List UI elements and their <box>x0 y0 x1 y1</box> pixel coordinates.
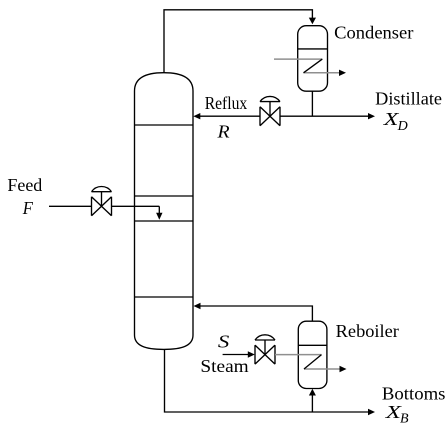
svg-text:F: F <box>22 198 34 218</box>
svg-text:Condenser: Condenser <box>334 23 413 43</box>
svg-text:Feed: Feed <box>7 175 42 195</box>
svg-text:Distillate: Distillate <box>375 88 442 108</box>
svg-text:D: D <box>397 119 408 134</box>
svg-text:Bottoms: Bottoms <box>382 384 446 404</box>
svg-text:B: B <box>400 412 409 427</box>
svg-text:S: S <box>218 331 229 351</box>
svg-text:Steam: Steam <box>200 356 248 376</box>
svg-text:Reflux: Reflux <box>205 93 248 113</box>
svg-text:R: R <box>216 121 229 141</box>
svg-text:Reboiler: Reboiler <box>336 321 399 341</box>
